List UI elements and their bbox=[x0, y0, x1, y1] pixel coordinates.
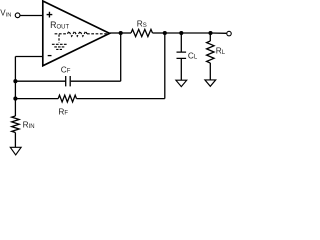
wire: op-amp output to node A bbox=[110, 32, 121, 34]
op-amp - input symbol bbox=[48, 55, 52, 57]
wire: node B to CL node bbox=[165, 32, 182, 34]
capacitor CF bbox=[66, 76, 71, 86]
wire: input terminal to op-amp + input bbox=[20, 15, 42, 17]
wire: CL to ground bbox=[180, 58, 182, 80]
wire: op-amp - input to left rail bbox=[15, 56, 42, 58]
wire: left rail vertical bbox=[14, 57, 16, 117]
wire: RL node to output terminal bbox=[211, 32, 227, 34]
wire: RL to ground bbox=[209, 63, 211, 80]
svg-text:CF: CF bbox=[61, 64, 71, 74]
wire: RS to node B bbox=[153, 32, 165, 34]
node A (junction dot) bbox=[119, 31, 123, 35]
capacitor CL bbox=[177, 52, 187, 58]
resistor RL bbox=[207, 41, 214, 63]
node B (junction dot) bbox=[163, 31, 167, 35]
wire: RF to left rail bbox=[15, 98, 58, 100]
resistor RIN bbox=[12, 116, 19, 133]
wire: RF branch right segment bbox=[77, 98, 165, 100]
resistor RF bbox=[58, 95, 76, 102]
op-amp + input symbol bbox=[47, 12, 53, 18]
wire: node B down to RF branch bbox=[164, 33, 166, 99]
node RL junction dot bbox=[208, 31, 212, 35]
wire: CF branch right segment bbox=[71, 80, 121, 82]
wire: node A to RS bbox=[121, 32, 131, 34]
svg-text:RS: RS bbox=[137, 18, 147, 28]
ground (internal, dashed bars) bbox=[52, 43, 67, 45]
wire (dashed, internal): down to internal ground bbox=[58, 35, 60, 43]
node CL junction dot bbox=[179, 31, 183, 35]
svg-text:VIN: VIN bbox=[0, 9, 11, 19]
wire: node A down to CF branch bbox=[120, 33, 122, 81]
wire: RIN to ground bbox=[14, 133, 16, 148]
wire: RL node down to RL bbox=[209, 33, 211, 41]
wire (dashed, internal): node to ROUT resistor bbox=[55, 33, 68, 35]
ground (below RL, open triangle) bbox=[205, 80, 216, 86]
wire: CL node to RL node bbox=[181, 32, 210, 34]
junction dot (left rail / RF) bbox=[13, 97, 17, 101]
wire (dashed, internal): ROUT to op-amp output apex bbox=[87, 33, 109, 35]
ground (below RIN, open triangle) bbox=[10, 147, 21, 155]
ground (below CL, open triangle) bbox=[176, 80, 187, 86]
resistor RS bbox=[131, 29, 153, 36]
svg-text:RIN: RIN bbox=[23, 119, 35, 129]
resistor ROUT (dashed internal) bbox=[68, 31, 88, 36]
output terminal (open circle) bbox=[227, 31, 232, 36]
op-amp U1 bbox=[43, 1, 110, 66]
svg-text:RF: RF bbox=[58, 106, 68, 116]
wire: CL node down to CL bbox=[180, 33, 182, 52]
junction dot (left rail / CF) bbox=[13, 79, 17, 83]
wire: CF to left rail bbox=[15, 80, 65, 82]
svg-text:RL: RL bbox=[216, 46, 226, 56]
svg-text:CL: CL bbox=[188, 50, 198, 60]
input terminal (open circle) bbox=[15, 13, 20, 18]
